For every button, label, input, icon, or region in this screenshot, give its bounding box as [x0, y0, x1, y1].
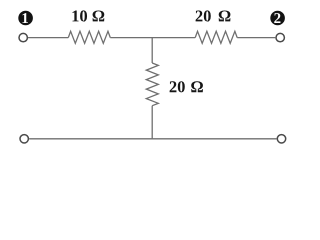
label R1 value 10 ohm — [73, 10, 105, 21]
wire top-left (terminal 1 to R1) — [28, 37, 68, 39]
wire top-right (R2 to terminal 2) — [237, 37, 275, 39]
terminal marker 2 (black disc) — [270, 11, 285, 26]
port terminal top-right (open circle) — [276, 33, 284, 41]
label R2 value 20 ohm — [196, 10, 231, 21]
port terminal bottom-right (open circle) — [277, 135, 285, 143]
port terminal top-left (open circle) — [19, 33, 27, 41]
wire R3 to bottom rail (vertical lower) — [151, 106, 153, 139]
wire top-middle (R1 to node / R2) — [110, 37, 195, 39]
terminal marker 1 digit — [22, 13, 28, 23]
terminal marker 1 (black disc) — [18, 11, 33, 26]
resistor R2 20 ohm (series, top-right) — [195, 31, 237, 43]
terminal marker 2 digit — [274, 13, 280, 23]
wire node to R3 (vertical upper) — [151, 38, 153, 63]
wire bottom rail — [29, 138, 277, 140]
label R3 value 20 ohm — [170, 81, 203, 92]
resistor R3 20 ohm (shunt, vertical) — [146, 63, 158, 106]
port terminal bottom-left (open circle) — [20, 135, 28, 143]
resistor R1 10 ohm (series, top-left) — [68, 31, 110, 43]
